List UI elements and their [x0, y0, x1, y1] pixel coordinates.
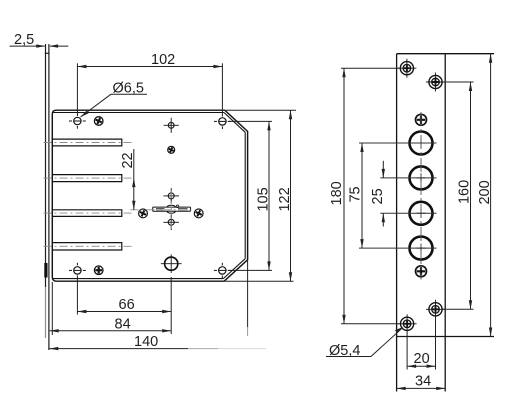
bolt bars: [53, 139, 122, 250]
big hole bottom center: [161, 254, 182, 273]
svg-text:105: 105: [255, 187, 271, 211]
svg-text:Ø6,5: Ø6,5: [113, 81, 144, 97]
small cross hole upper center: [164, 118, 179, 133]
svg-text:84: 84: [115, 317, 131, 333]
screw bottom-left phillips: [94, 266, 103, 275]
svg-text:2,5: 2,5: [14, 32, 34, 48]
callout diameter 5,4: [326, 329, 402, 357]
svg-text:122: 122: [277, 187, 293, 211]
dimension 102 (top holes distance): [77, 63, 222, 114]
faceplate edge (thin strip): [45, 44, 50, 350]
screw top-left phillips: [94, 116, 103, 125]
svg-text:75: 75: [347, 186, 363, 202]
svg-text:140: 140: [134, 334, 158, 350]
screw hole S4 bottom-left: [398, 314, 417, 333]
bar centerlines: [44, 143, 135, 247]
svg-text:25: 25: [370, 188, 386, 204]
small screw T1: [416, 114, 427, 125]
screw hole S1 top-left: [397, 59, 416, 78]
svg-text:200: 200: [477, 180, 493, 204]
svg-text:180: 180: [329, 181, 345, 205]
svg-text:160: 160: [456, 180, 472, 204]
faceplate outline: [397, 54, 494, 392]
callout diameter 6,5: [81, 94, 148, 117]
dimension 180: [341, 68, 399, 324]
dimension 105 (right, hole to hole): [228, 121, 272, 270]
dimension 25: [382, 161, 384, 227]
dimension 160: [443, 82, 474, 309]
dimension 140 (bottom overall): [49, 348, 266, 350]
right edge extension (fading): [247, 261, 249, 328]
svg-text:20: 20: [414, 351, 430, 367]
dimension 200: [490, 54, 492, 337]
small cross hole below hub: [163, 215, 179, 231]
screw hole S3 bottom-right: [426, 300, 445, 319]
small screw T2: [416, 266, 427, 277]
lock case outline: [52, 110, 247, 281]
dimension 122 (right, case height): [225, 110, 296, 281]
svg-text:102: 102: [151, 52, 175, 68]
screw left of hub phillips: [138, 209, 147, 218]
dimension 22 (bar to hub): [133, 149, 135, 210]
hub assembly (spindle follower bar): [153, 205, 191, 213]
big circles C1-C4: [410, 132, 433, 260]
screw right of hub phillips: [194, 209, 203, 218]
hole top-left cross: [69, 113, 86, 128]
screw hole S2 top-right: [426, 73, 445, 92]
svg-text:22: 22: [120, 152, 136, 168]
inner edge lines: [53, 113, 245, 279]
dimension 66 (bottom): [77, 277, 171, 334]
circle centerlines: [420, 112, 422, 280]
dimension 84 (bottom): [50, 282, 172, 335]
svg-text:Ø5,4: Ø5,4: [329, 343, 360, 359]
hub centerlines: [131, 191, 194, 229]
hole bottom-right cross: [214, 263, 231, 278]
hole top-right cross: [214, 114, 231, 129]
screw center phillips: [167, 146, 174, 153]
dimension 20: [407, 318, 435, 370]
dimension 2,5 (faceplate thickness): [10, 45, 69, 47]
svg-text:34: 34: [415, 374, 431, 390]
dimension 75: [361, 143, 363, 248]
hole bottom-left cross: [69, 263, 86, 278]
svg-text:66: 66: [119, 297, 135, 313]
small cross hole above hub: [163, 188, 179, 204]
latch blob on faceplate: [44, 263, 47, 278]
dimension 34: [397, 387, 446, 389]
